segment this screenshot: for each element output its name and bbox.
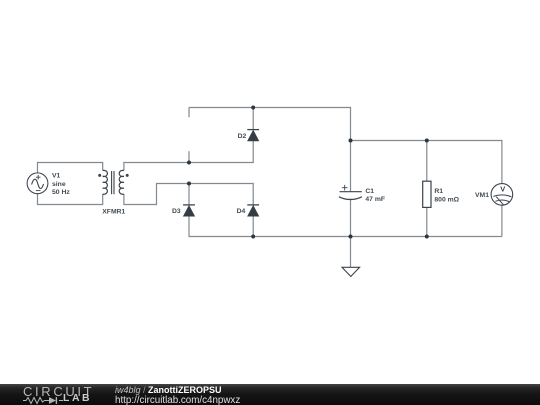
svg-text:V1: V1: [52, 173, 61, 180]
svg-text:47 mF: 47 mF: [365, 196, 385, 203]
svg-text:D3: D3: [172, 208, 181, 215]
svg-text:50 Hz: 50 Hz: [52, 189, 70, 196]
svg-text:D4: D4: [237, 208, 246, 215]
svg-text:sine: sine: [52, 181, 66, 188]
svg-text:XFMR1: XFMR1: [102, 209, 125, 216]
svg-text:R1: R1: [434, 188, 443, 195]
svg-text:V: V: [500, 185, 505, 194]
svg-text:D2: D2: [238, 133, 247, 140]
svg-text:800 mΩ: 800 mΩ: [434, 197, 459, 204]
svg-text:VM1: VM1: [475, 192, 489, 199]
svg-text:C1: C1: [365, 188, 374, 195]
